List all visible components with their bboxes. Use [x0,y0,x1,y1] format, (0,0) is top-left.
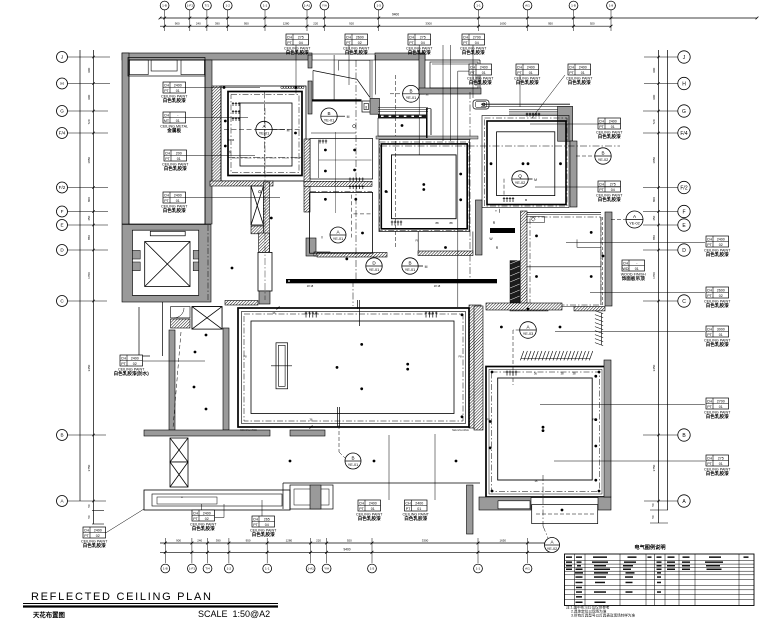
left living label box [114,355,150,377]
svg-text:E: E [60,223,63,228]
svg-text:01: 01 [635,267,639,271]
svg-text:白色乳胶漆: 白色乳胶漆 [598,196,621,203]
hall bottom line [311,132,356,134]
hatch band between powder and kitchen [304,181,372,186]
svg-text:1850: 1850 [87,157,91,164]
svg-text:1-B: 1-B [163,567,168,571]
svg-text:CH: CH [599,182,605,186]
svg-text:白色乳胶漆(防水): 白色乳胶漆(防水) [114,370,150,377]
svg-text:白色乳胶漆: 白色乳胶漆 [408,49,431,56]
svg-text:36 36: 36 36 [228,138,235,142]
top-left room interior outline [129,60,205,224]
svg-text:88: 88 [449,221,453,225]
svg-text:CH: CH [193,511,199,515]
living centerline stubs [357,300,359,309]
svg-text:PT: PT [409,41,414,45]
svg-text:CH: CH [346,35,352,39]
svg-text:9400: 9400 [343,548,350,552]
closet designator [520,322,537,339]
svg-text:白色乳胶漆: 白色乳胶漆 [516,79,539,86]
svg-text:白色乳胶漆: 白色乳胶漆 [404,515,427,522]
living room hatched right band [469,305,481,428]
svg-text:2400: 2400 [527,65,535,69]
bottom dimension lines [160,542,550,544]
svg-text:720: 720 [87,119,91,124]
svg-text:CH: CH [164,113,170,117]
svg-text:900: 900 [87,67,91,72]
svg-text:720: 720 [652,119,656,124]
closet top hatch band [486,303,562,310]
svg-text:1700: 1700 [87,272,91,279]
svg-text:240: 240 [197,538,202,542]
left grid dimension lines [79,50,81,501]
svg-text:T/1: T/1 [205,4,210,8]
master bedroom top wall [481,103,570,105]
horizontal dashed centerline [380,145,620,147]
svg-text:白色乳胶漆: 白色乳胶漆 [358,515,381,522]
hall small room [378,118,427,136]
svg-text:920: 920 [347,538,352,542]
svg-text:3300: 3300 [422,538,429,542]
svg-text:900: 900 [652,94,656,99]
dining room outer rect [221,86,306,181]
svg-text:2700: 2700 [473,35,481,39]
svg-text:C: C [682,299,686,305]
svg-text:D: D [682,248,686,254]
svg-text:天花布置图: 天花布置图 [33,610,65,619]
center bedroom outer rect [379,140,470,232]
svg-text:YE-01: YE-01 [369,268,380,272]
svg-text:265: 265 [264,517,270,521]
svg-text:白色乳胶漆: 白色乳胶漆 [706,302,729,309]
svg-text:2400: 2400 [717,237,725,241]
svg-text:CH: CH [84,528,90,532]
closet comb horizontal [520,351,592,360]
svg-text:CH: CH [707,327,713,331]
svg-text:金属板: 金属板 [166,127,181,134]
svg-text:T/4: T/4 [205,567,210,571]
svg-text:CH: CH [463,35,469,39]
svg-text:PT: PT [164,199,169,203]
svg-text:CH: CH [707,399,713,403]
svg-text:04: 04 [299,41,303,45]
svg-text:01: 01 [482,71,486,75]
duct hatch column [264,182,270,252]
svg-text:900: 900 [87,94,91,99]
bedroom2 bottom wall [479,497,531,510]
foyer door stop circle [353,125,356,128]
svg-text:T: T [495,209,497,213]
svg-text:04: 04 [611,188,615,192]
svg-text:((: (( [321,235,323,239]
left grid row leader lines [68,56,111,58]
svg-text:50: 50 [651,503,655,507]
svg-text:01: 01 [581,71,585,75]
svg-text:YE-02: YE-02 [547,547,558,551]
corridor designator [345,453,361,469]
svg-text:PT: PT [165,157,170,161]
top label boxes row [284,34,311,56]
elevator door slot [150,231,185,236]
dining tick clusters [232,102,240,106]
doorbell box [362,101,371,112]
right grid row leader lines [644,56,678,58]
corridor hatch vertical band [304,139,310,212]
svg-text:CH: CH [253,517,259,521]
center bedroom tick cluster [391,221,402,226]
svg-text:50: 50 [87,515,91,519]
center bedroom ceiling outer [381,144,467,229]
dining margin dots [224,120,227,123]
door arc room left of stair box [171,307,190,318]
bottom dimension ticks and texts [164,538,166,563]
master bedroom dots [490,162,493,165]
svg-text:850: 850 [652,235,656,240]
corridor circles below coffered rooms [366,258,382,274]
study right double vertical [600,217,602,305]
top-right small room outline [430,62,478,88]
svg-text:2400: 2400 [174,193,182,197]
svg-text:2400: 2400 [579,65,587,69]
svg-text:A/1: A/1 [525,4,530,8]
svg-text:950: 950 [244,22,249,26]
bedroom2 dots [491,371,494,374]
corridor lower boundary line [283,482,480,484]
corridor dots [289,460,292,463]
duct X box [251,186,264,225]
hall track band lines [378,107,428,109]
svg-text:F: F [682,209,685,215]
svg-text:PT: PT [121,362,126,366]
svg-text:REFLECTED CEILING PLAN: REFLECTED CEILING PLAN [31,591,213,603]
svg-text:H: H [682,81,686,87]
living room ceiling inner rect [251,321,454,414]
svg-text:白色乳胶漆: 白色乳胶漆 [598,133,621,140]
svg-text:02: 02 [358,41,362,45]
svg-text:PT: PT [346,41,351,45]
svg-text:920: 920 [590,22,595,26]
svg-text:02: 02 [719,294,723,298]
left grid sub ticks below A [92,510,104,512]
foyer dark beam bar [312,99,362,101]
svg-text:CH: CH [707,456,713,460]
dot left of column [231,267,234,270]
svg-text:3450: 3450 [87,364,91,371]
column below dining [258,252,272,291]
powder room below foyer [310,139,373,180]
left grid bubbles [57,52,68,63]
right grid bubbles [678,51,690,63]
svg-text:M: M [347,115,350,119]
svg-text:白色乳胶漆: 白色乳胶漆 [252,531,275,538]
master dashed closet lines [503,179,505,196]
svg-text:3.所有灯具型号以灯具表及现场封样为准: 3.所有灯具型号以灯具表及现场封样为准 [571,613,635,618]
outer top wall band [122,53,312,60]
svg-text:饰面板吊顶: 饰面板吊顶 [621,275,645,282]
svg-text:CH: CH [287,35,293,39]
svg-text:白色乳胶漆: 白色乳胶漆 [706,413,729,420]
svg-text:2400: 2400 [94,528,102,532]
svg-text:PT: PT [569,71,574,75]
svg-text:2600: 2600 [717,288,725,292]
svg-text:CH: CH [405,501,411,505]
bedroom2 tick cluster [506,371,517,376]
svg-text:1280: 1280 [283,22,290,26]
svg-text:PT: PT [406,507,411,511]
center bedroom outer walls [376,136,478,139]
svg-text:F/4: F/4 [680,131,687,137]
svg-text:YE-03: YE-03 [523,332,534,336]
svg-text:88: 88 [435,221,439,225]
svg-text:H: H [60,81,63,86]
svg-text:Q: Q [518,174,522,179]
svg-text:PT: PT [599,125,604,129]
corridor dots and dashed diagonal [205,334,208,337]
elevator shaft [122,225,211,303]
master curtain track lines [509,108,558,110]
svg-text:1-B: 1-B [162,4,167,8]
svg-text:900: 900 [175,22,180,26]
svg-text:220: 220 [313,22,318,26]
dining room hatched wall left [212,86,221,182]
leader lines for labels [295,45,297,93]
svg-text:CH: CH [121,356,127,360]
study interior top lines [527,212,601,214]
svg-text:白色乳胶漆: 白色乳胶漆 [83,542,106,549]
svg-text:白色乳胶漆: 白色乳胶漆 [192,525,215,532]
living room light fixture [276,343,288,389]
dining ceiling rect outer thick [228,92,302,176]
bedroom2 dash-dot inner border [492,372,600,492]
center bedroom top leader [418,45,420,155]
svg-text:200: 200 [176,151,182,155]
svg-text:2400: 2400 [609,119,617,123]
master ceiling thick rect [487,121,566,205]
svg-text:04: 04 [475,41,479,45]
dining corner dots [223,86,226,89]
corridor-bedroom2 wall [467,485,474,534]
hall below elevator outline [162,302,164,356]
svg-text:920: 920 [349,22,354,26]
svg-text:MT: MT [164,119,170,123]
svg-text:800: 800 [652,197,656,202]
svg-text:1-A1: 1-A1 [307,567,314,571]
svg-text:02: 02 [719,243,723,247]
master bedroom right wall gray block [558,106,573,141]
svg-text:白色乳胶漆: 白色乳胶漆 [164,165,187,172]
svg-text:CH: CH [409,35,415,39]
svg-text:白色乳胶漆: 白色乳胶漆 [706,251,729,258]
svg-text:PT: PT [707,333,712,337]
svg-text:01: 01 [611,125,615,129]
kitchen dashed appliance [350,195,352,238]
svg-text:YE-01: YE-01 [324,118,335,122]
svg-text:450: 450 [652,215,656,220]
dining ceiling rect inner [240,103,292,166]
svg-text:01: 01 [719,405,723,409]
svg-text:白色乳胶漆: 白色乳胶漆 [706,470,729,477]
svg-text:04: 04 [265,523,269,527]
svg-text:YE-01: YE-01 [333,237,344,241]
svg-text:50: 50 [87,504,91,508]
svg-text:1-1: 1-1 [265,567,270,571]
bedroom2 outer rect [486,367,605,498]
svg-text:CH: CH [569,65,575,69]
svg-text:J: J [61,55,63,60]
svg-text:3300: 3300 [425,22,432,26]
svg-text:2400: 2400 [415,501,423,505]
svg-text:白色乳胶漆: 白色乳胶漆 [163,97,186,104]
svg-text:01: 01 [719,333,723,337]
foyer insulation dot chain [281,86,304,88]
svg-text:1280: 1280 [286,538,293,542]
top-right bath block walls [419,54,425,94]
svg-text:CH: CH [359,501,365,505]
svg-text:PT: PT [707,462,712,466]
top grid bubbles [160,1,169,10]
bedroom2 right wall [604,360,611,497]
svg-text:F/4: F/4 [59,131,66,136]
svg-text:PT: PT [517,71,522,75]
kitchen room [310,193,373,254]
svg-text:450: 450 [87,215,91,220]
bedroom2 bay dot [561,509,564,512]
study step top-left [527,217,544,223]
svg-text:CH: CH [707,237,713,241]
bottom grid bubbles [161,564,170,573]
right grid dimension lines [658,50,660,523]
svg-text:YE-01: YE-01 [406,96,417,100]
svg-text:1-A1: 1-A1 [304,4,311,8]
svg-text:01: 01 [177,157,181,161]
svg-text:白色乳胶漆: 白色乳胶漆 [706,341,729,348]
bottom-left bay window outline [144,490,290,510]
living room dots [336,366,339,369]
svg-text:B: B [408,261,411,266]
svg-text:PT: PT [84,534,89,538]
dining dashed lines [224,129,256,131]
svg-text:01: 01 [529,71,533,75]
living room outer double rect [238,308,469,427]
beam thick bar [286,279,497,283]
svg-text:白色乳胶漆: 白色乳胶漆 [286,49,309,56]
svg-text:M: M [425,265,428,269]
svg-text:01: 01 [371,507,375,511]
top second row label boxes [467,64,494,86]
right column label boxes [596,118,623,140]
foyer designator [321,108,337,124]
svg-text:900: 900 [176,538,181,542]
dining designator [256,121,272,137]
bottom label boxes [356,500,383,522]
svg-text:F/2: F/2 [680,185,687,191]
svg-text:1-1: 1-1 [263,4,268,8]
svg-text:CH: CH [599,119,605,123]
svg-text:1-F1: 1-F1 [187,4,194,8]
gray block right of foyer [370,98,380,114]
svg-text:PT: PT [707,294,712,298]
living room dash-dot border [244,314,463,421]
svg-text:02: 02 [205,517,209,521]
top-left block left wall [122,53,129,224]
bedroom2 bay bottom [532,505,598,524]
left lower wall [169,330,175,430]
svg-text:白色乳胶漆: 白色乳胶漆 [345,49,368,56]
study dots [535,235,538,238]
svg-text:1-1: 1-1 [476,4,481,8]
svg-text:850: 850 [87,235,91,240]
foyer upper room boundary [338,60,340,70]
svg-text:3750: 3750 [87,464,91,471]
svg-text:YE-01: YE-01 [405,268,416,272]
svg-text:02: 02 [96,534,100,538]
svg-text:1-8: 1-8 [609,4,614,8]
corridor vertical walls left of living [223,328,229,430]
svg-text:2400: 2400 [203,511,211,515]
master designator [512,171,528,187]
svg-text:B: B [327,111,330,116]
svg-text:M: M [287,129,290,133]
gray column left of bedroom2 [476,200,483,255]
svg-text:SCALE 1:50@A2: SCALE 1:50@A2 [198,609,270,619]
svg-text:2400: 2400 [369,501,377,505]
top dimension ticks and segment texts [164,10,166,31]
svg-text:38: 38 [560,372,564,376]
top-left block inner cabinet band [128,58,205,77]
ceiling detector rounded rect [473,100,489,109]
svg-text:36: 36 [534,372,538,376]
svg-text:B: B [409,88,412,93]
svg-text:YE-02: YE-02 [598,158,609,162]
svg-text:2700: 2700 [717,399,725,403]
svg-text:CH: CH [164,193,170,197]
svg-text:PT: PT [164,89,169,93]
svg-text:1-5: 1-5 [376,4,381,8]
svg-text:1-1: 1-1 [476,567,481,571]
left block label boxes [161,82,188,104]
hatch below door room [171,319,190,328]
svg-text:G: G [60,109,64,114]
master ceiling inner rect [497,132,555,196]
svg-text:G: G [682,109,686,115]
study designator [626,211,643,228]
svg-text:800: 800 [87,197,91,202]
svg-text:01: 01 [719,462,723,466]
bedroom2 ceiling inner [498,378,593,480]
svg-text:YE-01: YE-01 [348,463,359,467]
study dim bracket [576,239,578,247]
study dash-dot inner border [530,217,601,305]
center bedroom dots [422,183,425,186]
svg-text:01: 01 [176,89,180,93]
svg-text:18 18: 18 18 [307,284,314,288]
kitchen bottom-left gray L [306,238,316,256]
tick clusters at kitchen top [349,178,364,182]
svg-text:M: M [534,178,537,182]
svg-text:电气图例说明: 电气图例说明 [634,543,665,551]
alcove below center bedroom [417,232,419,252]
study divider line [527,266,601,268]
svg-text:2400: 2400 [131,356,139,360]
kitchen bottom hatch walls [317,253,387,258]
right grid sub ticks below A [650,509,668,511]
bay window center bottom [290,485,333,509]
stair X box upper [192,307,222,330]
legend table cell marks [566,556,572,558]
svg-text:WD: WD [623,267,629,271]
svg-text:PT: PT [463,41,468,45]
svg-text:3000: 3000 [717,327,725,331]
